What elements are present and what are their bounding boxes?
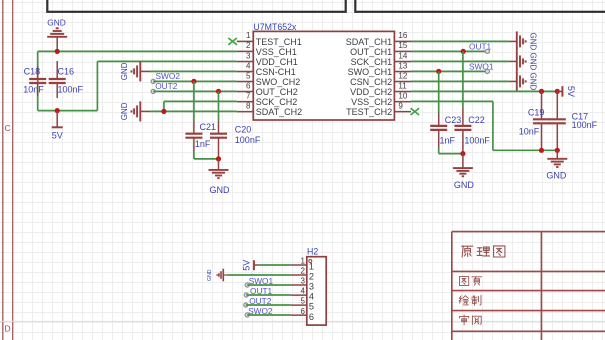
junction [555, 148, 560, 153]
junction [55, 49, 60, 54]
svg-text:12: 12 [398, 71, 407, 80]
pin 16 SDAT_CH1 [346, 31, 411, 47]
svg-text:SWO_CH2: SWO_CH2 [256, 77, 301, 87]
wire [246, 294, 290, 296]
svg-text:4: 4 [309, 292, 314, 302]
svg-text:1: 1 [309, 262, 314, 272]
junction [460, 151, 465, 156]
svg-text:OUT2: OUT2 [155, 81, 178, 91]
svg-text:3: 3 [309, 282, 314, 292]
pin 10 VSS_CH2 [351, 91, 411, 107]
title block [452, 232, 605, 340]
svg-text:1: 1 [246, 31, 251, 40]
wire CSN-CH1 [150, 70, 237, 72]
junction [216, 156, 221, 161]
junction [555, 89, 560, 94]
svg-text:OUT_CH1: OUT_CH1 [350, 47, 392, 57]
svg-text:SDAT_CH2: SDAT_CH2 [256, 107, 302, 117]
wire C21 vertical [193, 81, 195, 121]
svg-text:TEST_CH1: TEST_CH1 [256, 37, 302, 47]
svg-text:2: 2 [246, 41, 251, 50]
junction [161, 109, 166, 114]
capacitor C23 [430, 113, 461, 147]
svg-text:GND: GND [120, 102, 129, 120]
capacitor C22 [454, 108, 490, 154]
svg-text:5: 5 [309, 302, 314, 312]
svg-text:D: D [5, 323, 11, 333]
sheet symbol box top-right [355, 0, 605, 12]
wire bottom horizontal to VDD [38, 110, 98, 112]
net label SWO1 [245, 276, 273, 287]
svg-text:16: 16 [398, 31, 407, 40]
svg-text:C16: C16 [58, 67, 75, 77]
capacitor C20 [210, 121, 261, 159]
svg-text:GND: GND [210, 185, 231, 195]
svg-text:C22: C22 [468, 115, 485, 125]
zone label D [5, 323, 11, 333]
power 5V top-left [52, 111, 63, 141]
svg-text:CSN_CH2: CSN_CH2 [350, 77, 392, 87]
pin 4 CSN-CH1 [237, 61, 296, 77]
pin 5 H2 [291, 297, 314, 312]
op-amp style IC U7 MT652x body [253, 22, 394, 120]
capacitor C21 [185, 121, 216, 152]
pin 3 H2 [291, 277, 314, 292]
pin 14 SCK_CH1 [351, 51, 411, 67]
svg-text:GND: GND [529, 53, 538, 71]
svg-text:GND: GND [47, 17, 65, 27]
svg-text:2: 2 [309, 272, 314, 282]
ground right pin12 [509, 71, 538, 91]
svg-text:9: 9 [398, 101, 403, 110]
pin 2 VSS_CH1 [237, 41, 297, 57]
svg-text:SCK_CH2: SCK_CH2 [256, 97, 298, 107]
capacitor C17 [549, 91, 598, 150]
net label SWQ1 [469, 61, 494, 73]
svg-text:6: 6 [300, 307, 305, 316]
net label OUT2 [244, 296, 272, 307]
ground below C17 [546, 150, 567, 180]
wire SCK_CH2 [164, 101, 237, 111]
svg-text:SDAT_CH1: SDAT_CH1 [346, 37, 392, 47]
wire VSS_CH2 to gnd rail [411, 101, 557, 150]
net label OUT1 [244, 286, 272, 297]
svg-text:3: 3 [246, 51, 251, 60]
wire C23 C22 bottom join [439, 147, 463, 154]
svg-text:6: 6 [309, 312, 314, 322]
svg-text:VSS_CH2: VSS_CH2 [351, 97, 392, 107]
row label 绘制 [459, 296, 468, 305]
wire CSN_CH2 [411, 80, 509, 82]
ground left pin8 [120, 101, 150, 121]
junction [216, 89, 221, 94]
ground below C20 [209, 159, 231, 195]
svg-text:15: 15 [398, 41, 407, 50]
svg-text:10nF: 10nF [23, 84, 44, 94]
wire [247, 314, 290, 316]
wire OUT_CH1 [411, 50, 487, 52]
svg-text:C20: C20 [235, 124, 252, 134]
svg-text:U7MT652x: U7MT652x [253, 22, 297, 32]
wire OUT2 to pin6 [153, 90, 237, 92]
svg-text:5V: 5V [241, 260, 251, 271]
capacitor C19 [519, 91, 550, 150]
pin 12 CSN_CH2 [350, 71, 411, 87]
svg-text:SWO2: SWO2 [156, 71, 181, 81]
pin 5 SWO_CH2 [237, 71, 301, 87]
net label OUT2 [151, 81, 178, 93]
pin 6 H2 [291, 307, 314, 322]
svg-text:100nF: 100nF [464, 135, 490, 145]
pin 11 VDD_CH2 [350, 81, 411, 97]
wire H2 pin2 [227, 274, 291, 276]
wire VDD_CH1 [97, 61, 236, 110]
svg-text:100nF: 100nF [235, 135, 261, 145]
svg-text:4: 4 [246, 61, 251, 70]
svg-text:VDD_CH1: VDD_CH1 [256, 57, 298, 67]
svg-text:7: 7 [246, 91, 251, 100]
wire left vertical [37, 51, 39, 110]
ground right pin14 [509, 51, 538, 71]
svg-text:100nF: 100nF [572, 120, 598, 130]
pin 7 SCK_CH2 [237, 91, 298, 107]
wire caps bottom join [194, 152, 219, 159]
svg-text:GND: GND [120, 62, 129, 80]
zone label C [5, 123, 11, 133]
svg-text:10nF: 10nF [519, 127, 540, 137]
pin 4 H2 [291, 287, 314, 302]
svg-text:C: C [5, 123, 11, 133]
pin 8 SDAT_CH2 [237, 101, 302, 117]
svg-text:1: 1 [300, 257, 305, 266]
capacitor C18 [23, 66, 46, 96]
pin 3 VDD_CH1 [237, 51, 298, 67]
net label OUT1 [469, 41, 492, 53]
svg-text:2: 2 [300, 267, 305, 276]
wire C20 vertical [218, 91, 220, 121]
wire SDAT_CH2 [150, 110, 237, 112]
title text 原理图 [462, 246, 473, 257]
svg-text:5: 5 [246, 71, 251, 80]
wire H2 pin1 [260, 264, 291, 266]
svg-text:SCK_CH1: SCK_CH1 [351, 57, 393, 67]
svg-text:13: 13 [398, 61, 407, 70]
pin 13 SWO_CH1 [348, 61, 411, 77]
capacitor C16 [49, 61, 84, 98]
svg-text:OUT_CH2: OUT_CH2 [256, 87, 298, 97]
svg-text:C18: C18 [24, 67, 41, 77]
wire VDD_CH2 to 5V [411, 90, 557, 92]
svg-text:1nF: 1nF [195, 139, 211, 149]
net label SWO2 [245, 306, 273, 317]
svg-text:C19: C19 [528, 107, 545, 117]
svg-text:14: 14 [398, 51, 407, 60]
no-connect pin 1 [228, 38, 237, 45]
row label 审阅 [459, 315, 468, 325]
wire SWO_CH1 [411, 70, 487, 72]
sheet symbol box top-left [47, 0, 345, 12]
svg-text:1nF: 1nF [440, 135, 456, 145]
svg-text:10: 10 [398, 91, 407, 100]
ground left pin4 [120, 61, 150, 81]
wire SWO2 to pin5 [153, 80, 237, 82]
pin 15 OUT_CH1 [350, 41, 411, 57]
junction [461, 49, 466, 54]
wire C22 vertical [462, 51, 464, 108]
svg-text:5V: 5V [566, 86, 576, 97]
pin 6 OUT_CH2 [237, 81, 298, 97]
svg-text:GND: GND [529, 33, 538, 51]
wire [246, 304, 291, 306]
svg-text:11: 11 [398, 81, 407, 90]
ground right pin16 [509, 31, 538, 51]
wire SDAT_CH1 [411, 40, 509, 42]
svg-text:H2: H2 [307, 247, 318, 257]
svg-text:SWO_CH1: SWO_CH1 [348, 67, 393, 77]
svg-text:8: 8 [246, 101, 251, 110]
junction [191, 79, 196, 84]
pin 1 H2 [291, 257, 314, 272]
junction [539, 89, 544, 94]
row label 图页 [459, 277, 468, 286]
svg-text:100nF: 100nF [58, 84, 84, 94]
power 5V at H2 [241, 260, 260, 271]
svg-text:5V: 5V [52, 131, 63, 141]
svg-text:C23: C23 [445, 115, 462, 125]
pin 9 TEST_CH2 [346, 101, 411, 117]
svg-text:3: 3 [300, 277, 305, 286]
no-connect pin 9 [411, 108, 420, 115]
svg-text:GND: GND [546, 170, 567, 180]
power 5V right [557, 86, 576, 97]
ground below C22 [453, 154, 475, 191]
svg-text:GND: GND [529, 73, 538, 91]
junction [539, 148, 544, 153]
svg-text:C21: C21 [200, 122, 217, 132]
pin 2 H2 [291, 267, 314, 282]
junction [436, 69, 441, 74]
svg-text:6: 6 [246, 81, 251, 90]
wire C23 vertical [438, 71, 440, 113]
svg-text:TEST_CH2: TEST_CH2 [346, 107, 392, 117]
svg-text:SWQ1: SWQ1 [469, 61, 494, 71]
wire net VSS_CH1 horizontal [38, 50, 237, 52]
junction [55, 108, 60, 113]
pin 1 TEST_CH1 [237, 31, 302, 47]
connector H2 body [307, 247, 326, 326]
svg-text:GND: GND [207, 269, 213, 281]
wire [247, 284, 290, 286]
svg-text:GND: GND [454, 180, 475, 190]
svg-text:5: 5 [300, 297, 305, 306]
wire SCK_CH1 [411, 60, 509, 62]
ground GND top-left [47, 17, 67, 51]
svg-text:VSS_CH1: VSS_CH1 [256, 47, 297, 57]
svg-text:VDD_CH2: VDD_CH2 [350, 87, 392, 97]
net label SWO2 [151, 71, 180, 83]
svg-text:CSN-CH1: CSN-CH1 [256, 67, 296, 77]
ground at H2 pin2 [207, 269, 227, 282]
svg-text:4: 4 [300, 287, 305, 296]
